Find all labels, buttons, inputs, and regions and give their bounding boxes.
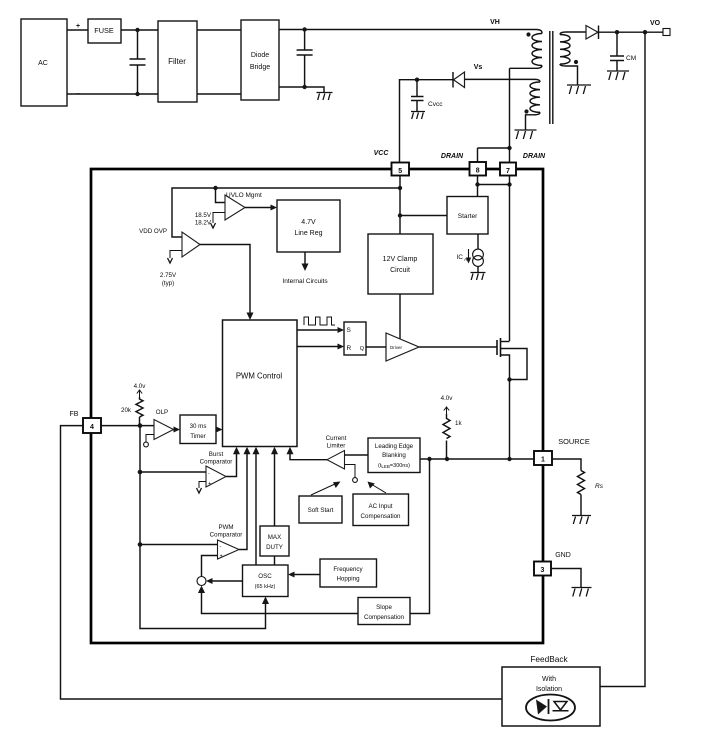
node j3 xyxy=(302,27,306,31)
svg-text:With: With xyxy=(542,676,556,683)
capacitor Cvcc xyxy=(411,80,443,112)
wire source external xyxy=(552,459,581,471)
svg-text:Q: Q xyxy=(360,346,365,352)
wire bridge negative to ground xyxy=(279,87,324,92)
node j1 xyxy=(135,28,139,32)
wire FB external xyxy=(61,426,503,699)
svg-text:18.2V: 18.2V xyxy=(195,220,212,227)
wire UVLO sense drop xyxy=(216,188,226,203)
transformer T1 primary winding xyxy=(510,30,543,69)
svg-text:Bridge: Bridge xyxy=(250,64,270,71)
wire driver to gate xyxy=(419,346,497,348)
arrowhead into OSC bottom xyxy=(262,597,269,605)
wire frequency hopping to OSC xyxy=(292,574,320,576)
wire OSC to summing node xyxy=(210,580,243,582)
clock waveform xyxy=(304,317,335,325)
arrowhead burst into PWM xyxy=(233,447,240,455)
svg-text:1: 1 xyxy=(541,457,545,464)
node j8 xyxy=(507,146,511,150)
wire primary to drain xyxy=(509,68,511,148)
resistor R1k xyxy=(443,414,462,459)
svg-text:4.0v: 4.0v xyxy=(134,383,147,390)
arrowhead PWM comp into PWM xyxy=(244,447,251,455)
optocoupler symbol xyxy=(526,695,575,721)
wire FB to burst comparator xyxy=(140,471,206,473)
svg-text:Blanking: Blanking xyxy=(382,452,406,459)
svg-text:MAX: MAX xyxy=(268,534,281,541)
svg-text:-: - xyxy=(208,471,210,477)
svg-text:-: - xyxy=(220,544,222,550)
ground output xyxy=(607,71,629,80)
svg-text:OLP: OLP xyxy=(156,409,168,416)
svg-text:Compensation: Compensation xyxy=(361,513,401,520)
svg-text:Slope: Slope xyxy=(376,604,392,611)
svg-text:3: 3 xyxy=(541,567,545,574)
wire OLP to timer xyxy=(174,429,177,431)
svg-text:AC: AC xyxy=(38,60,48,67)
capacitor CM xyxy=(610,32,636,71)
svg-text:PWM: PWM xyxy=(218,524,233,531)
svg-text:Starter: Starter xyxy=(458,213,478,220)
arrowhead into summing node right xyxy=(206,578,213,584)
wire AC+ to FUSE xyxy=(67,29,88,31)
svg-text:(typ): (typ) xyxy=(162,280,174,287)
pin DRAIN right xyxy=(500,153,546,176)
regulator 4.7V Line Reg xyxy=(277,200,340,252)
svg-text:IC: IC xyxy=(457,254,464,261)
block feedback with isolation xyxy=(502,654,600,726)
wire max duty to OSC xyxy=(274,556,276,565)
comparator PWM xyxy=(210,524,243,560)
wire slope comp to source sense xyxy=(410,459,430,614)
current source ICA xyxy=(457,234,484,272)
node j9 xyxy=(398,186,402,190)
comparator OLP xyxy=(154,409,174,440)
node j18 xyxy=(138,423,143,428)
transformer T1 secondary winding xyxy=(560,32,578,85)
node j12 xyxy=(475,182,479,186)
svg-text:Diode: Diode xyxy=(251,52,269,59)
svg-text:Driver: Driver xyxy=(390,345,403,350)
capacitor CX1 xyxy=(130,30,146,94)
wire source row xyxy=(420,458,534,460)
node j4 xyxy=(302,85,306,89)
ground auxiliary xyxy=(515,130,537,139)
ground Rs xyxy=(572,516,591,525)
block starter xyxy=(447,197,488,235)
resistor RFB 20k xyxy=(121,397,143,426)
svg-text:AC Input: AC Input xyxy=(368,503,392,510)
block soft start xyxy=(299,496,342,523)
diode D1 output rectifier xyxy=(586,26,599,40)
block 30ms timer xyxy=(180,415,216,444)
wire PWM to latch R xyxy=(297,346,340,348)
wire drain to mosfet xyxy=(509,176,511,342)
svg-text:FUSE: FUSE xyxy=(94,26,114,35)
block frequency hopping xyxy=(320,559,377,587)
wire slope comp to summing node xyxy=(202,590,359,614)
bulk capacitor CB1 xyxy=(297,30,313,88)
resistor Rs xyxy=(578,471,604,516)
node j20 xyxy=(138,542,143,547)
comparator current limiter xyxy=(326,435,347,469)
transformer T1 core xyxy=(550,31,553,124)
svg-text:DRAIN: DRAIN xyxy=(441,153,464,160)
reference burst input xyxy=(197,482,207,494)
wire drain link rail xyxy=(478,184,510,186)
IC U1 outline xyxy=(91,169,543,643)
arrowhead into summing node bottom xyxy=(198,586,205,594)
svg-text:Comparator: Comparator xyxy=(210,532,243,539)
arrowhead into PWM control left xyxy=(216,427,223,433)
buffer driver xyxy=(386,333,419,361)
reference 18.5V/18.2V xyxy=(195,212,225,228)
wire VO rail xyxy=(599,31,664,33)
svg-text:(65 kHz): (65 kHz) xyxy=(255,584,276,590)
svg-text:18.5V: 18.5V xyxy=(195,212,212,219)
svg-text:FeedBack: FeedBack xyxy=(530,654,568,664)
block leading edge blanking xyxy=(368,438,420,473)
ground input xyxy=(317,93,333,101)
svg-text:Limiter: Limiter xyxy=(327,443,346,450)
svg-text:Circuit: Circuit xyxy=(390,267,410,274)
block PWM control xyxy=(223,320,298,447)
svg-text:S: S xyxy=(347,327,352,334)
wire max duty to PWM control xyxy=(274,451,276,526)
svg-text:Cvcc: Cvcc xyxy=(428,101,443,108)
ground ICA xyxy=(471,273,486,281)
svg-text:12V Clamp: 12V Clamp xyxy=(383,256,418,263)
wire PWM comparator to PWM control xyxy=(239,451,247,550)
EMI filter FL1 xyxy=(158,21,197,102)
wire summing node to PWM comparator xyxy=(202,556,218,577)
svg-text:UVLO Mgmt: UVLO Mgmt xyxy=(226,192,262,199)
ground secondary xyxy=(567,85,591,94)
diode Ds Vs rectifier xyxy=(453,72,465,88)
switch arm AC input comp xyxy=(368,482,387,494)
pin SOURCE xyxy=(534,437,590,465)
ground Cvcc xyxy=(411,112,425,120)
svg-text:Comparator: Comparator xyxy=(200,459,233,466)
svg-text:CM: CM xyxy=(626,55,636,62)
wire FB internal xyxy=(101,425,154,427)
svg-text:Leading Edge: Leading Edge xyxy=(375,443,414,450)
comparator burst xyxy=(200,451,233,487)
arrowhead into OSC right xyxy=(288,572,295,578)
block max duty xyxy=(260,526,289,556)
svg-text:SOURCE: SOURCE xyxy=(558,437,590,446)
svg-text:1k: 1k xyxy=(455,420,462,427)
block AC input compensation xyxy=(353,494,409,526)
wire latch to driver xyxy=(366,346,386,348)
svg-text:Burst: Burst xyxy=(209,451,224,458)
AC source V1 xyxy=(21,19,80,106)
svg-text:Current: Current xyxy=(326,435,347,442)
node j6 xyxy=(643,30,647,34)
transistor Q1 power MOSFET xyxy=(497,338,527,380)
arrowhead into line reg xyxy=(271,205,278,211)
pin GND xyxy=(534,552,571,576)
arrowhead latch R xyxy=(338,344,345,350)
svg-text:Vs: Vs xyxy=(474,64,483,71)
svg-text:VH: VH xyxy=(490,19,500,26)
transformer T1 secondary phase dot xyxy=(574,60,578,64)
node j13 xyxy=(507,182,511,186)
supply 4.0V FB pullup xyxy=(134,383,147,397)
node j17 xyxy=(507,457,511,461)
wire timer to PWM control xyxy=(216,429,219,431)
supply 4.0V current sense xyxy=(441,395,454,414)
svg-text:R: R xyxy=(347,345,352,352)
svg-text:+: + xyxy=(76,23,80,30)
wire VH rail xyxy=(279,29,537,31)
arrowhead into PWM control top xyxy=(247,313,254,321)
node j7 xyxy=(415,78,419,82)
oscillator OSC xyxy=(243,565,289,597)
wire mosfet source down xyxy=(509,380,511,460)
svg-text:VDD OVP: VDD OVP xyxy=(139,228,167,235)
svg-text:30 ms: 30 ms xyxy=(190,423,207,430)
svg-text:Internal Circuits: Internal Circuits xyxy=(282,278,328,285)
arrowhead max duty into PWM xyxy=(271,447,278,455)
svg-text:Isolation: Isolation xyxy=(536,686,562,693)
wire secondary to diode D1 xyxy=(566,31,586,33)
transformer T1 primary phase dot xyxy=(526,32,530,36)
pin DRAIN left xyxy=(441,153,486,176)
node j11 xyxy=(213,186,217,190)
svg-text:OSC: OSC xyxy=(258,573,272,580)
svg-text:4.7V: 4.7V xyxy=(301,219,316,226)
svg-text:2.75V: 2.75V xyxy=(160,272,177,279)
svg-text:(tLEB=300ns): (tLEB=300ns) xyxy=(378,463,410,469)
wire OVP to PWM control xyxy=(200,245,250,317)
svg-text:20k: 20k xyxy=(121,407,132,414)
transformer T1 auxiliary phase dot xyxy=(524,109,528,113)
diode bridge BR1 xyxy=(241,20,279,100)
reference 2.75V xyxy=(160,251,182,288)
ground GND pin xyxy=(572,588,592,597)
svg-text:DRAIN: DRAIN xyxy=(523,153,546,160)
wire FUSE to Filter xyxy=(121,29,158,31)
wire aux winding to diode Ds xyxy=(465,78,536,80)
comparator VDD OVP xyxy=(139,228,200,257)
block slope compensation xyxy=(358,598,410,625)
wire OSC to PWM control xyxy=(255,451,257,565)
svg-text:+: + xyxy=(208,481,211,487)
transformer T1 auxiliary winding xyxy=(526,79,541,130)
arrowhead into timer xyxy=(174,427,181,433)
wire GND pin external xyxy=(551,569,581,588)
wire burst to PWM control xyxy=(226,451,237,477)
svg-text:Frequency: Frequency xyxy=(333,566,363,573)
svg-text:GND: GND xyxy=(555,552,571,559)
arrowhead current limiter into PWM xyxy=(287,447,294,455)
svg-text:VO: VO xyxy=(650,20,661,27)
node j2 xyxy=(135,92,139,96)
svg-text:DUTY: DUTY xyxy=(266,544,283,551)
wire drain to starter xyxy=(477,176,479,197)
arrowhead latch S xyxy=(338,327,345,333)
node j10 xyxy=(398,213,402,217)
svg-text:Compensation: Compensation xyxy=(364,614,404,621)
terminal VO xyxy=(663,29,670,36)
wire FB to PWM comparator xyxy=(140,544,218,546)
wire Filter to Bridge top xyxy=(197,29,241,31)
svg-text:Soft Start: Soft Start xyxy=(308,507,334,514)
svg-text:Filter: Filter xyxy=(168,57,186,66)
svg-text:Hopping: Hopping xyxy=(336,576,360,583)
switch arm soft start xyxy=(311,482,341,496)
reference OLP input xyxy=(144,435,154,447)
wire VCC internal stem xyxy=(399,176,401,235)
wire current limiter to PWM control xyxy=(290,451,327,460)
wire Filter to Bridge bottom xyxy=(197,93,241,95)
node j16 xyxy=(445,457,449,461)
svg-text:Rs: Rs xyxy=(595,483,604,490)
arrow internal circuits xyxy=(282,252,328,285)
fuse F1 xyxy=(88,19,121,43)
wire UVLO to line reg xyxy=(245,207,275,209)
comparator UVLO xyxy=(225,192,262,220)
svg-text:5: 5 xyxy=(398,168,402,175)
node j19 xyxy=(138,470,143,475)
wire LEB to current limiter xyxy=(345,454,369,456)
svg-text:4: 4 xyxy=(90,424,94,431)
svg-text:4.0v: 4.0v xyxy=(441,395,454,402)
summing node N1 xyxy=(197,577,206,586)
wire diode Ds to VCC xyxy=(400,80,454,163)
node j15 xyxy=(427,457,431,461)
svg-text:FB: FB xyxy=(70,411,79,418)
wire feedback to VO rail xyxy=(600,32,645,686)
svg-text:Line Reg: Line Reg xyxy=(294,230,322,237)
svg-text:PWM Control: PWM Control xyxy=(236,372,283,381)
wire FB rail down xyxy=(140,426,266,629)
svg-text:VCC: VCC xyxy=(374,150,390,157)
latch U2 xyxy=(344,322,366,355)
wire PWM to latch S xyxy=(297,329,340,331)
svg-text:Timer: Timer xyxy=(190,433,206,440)
svg-text:+: + xyxy=(220,554,223,560)
pin FB xyxy=(70,411,101,433)
wire drain pin riser xyxy=(478,148,510,163)
wire starter feed xyxy=(400,215,447,217)
pin VCC xyxy=(374,150,409,176)
switch common terminal xyxy=(345,465,358,483)
wire VCC sense rail xyxy=(172,188,400,237)
wire AC- bottom rail xyxy=(67,93,158,95)
svg-text:7: 7 xyxy=(506,168,510,175)
arrowhead OSC into PWM xyxy=(253,447,260,455)
wire clamp to driver supply xyxy=(399,294,401,341)
svg-text:8: 8 xyxy=(476,168,480,175)
node j14 xyxy=(507,377,511,381)
regulator 12V clamp circuit xyxy=(368,234,433,294)
node j5 xyxy=(615,30,619,34)
